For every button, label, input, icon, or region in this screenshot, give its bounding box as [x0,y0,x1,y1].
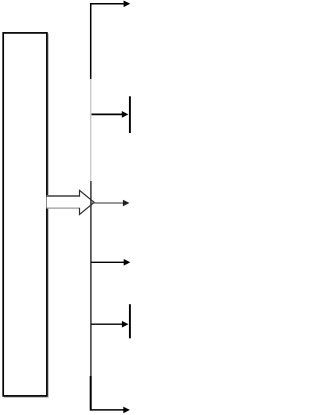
shadow of process box [4,34,48,397]
wire: vertical bus line lower segment (thin black) [90,181,92,376]
wire: vertical bus line bottom segment (thick black) [90,376,92,411]
block arrow head outline [80,190,95,214]
block arrow body bottom edge [47,207,80,209]
arrow 1: top elbow horizontal with arrowhead [90,1,130,8]
wire: vertical bus line top segment (black) [90,3,92,79]
process box (tall rectangle) [3,33,47,396]
arrow 4: horizontal arrow (middle) [91,259,130,266]
block arrow body top edge [47,195,80,197]
arrow 3: gray horizontal arrow from block-arrow tip [91,200,129,207]
arrow 5: horizontal arrow into block edge (lower) [91,321,129,328]
wire: vertical bus line middle segment (light gray) [90,79,92,181]
arrow 2: horizontal arrow into block edge [92,111,129,118]
node: right block edge (lower) [129,304,131,338]
node: right block edge (upper) [129,96,131,133]
arrow 6: bottom elbow horizontal with arrowhead [90,407,130,414]
block arrow (open right arrow) fill [47,190,95,214]
